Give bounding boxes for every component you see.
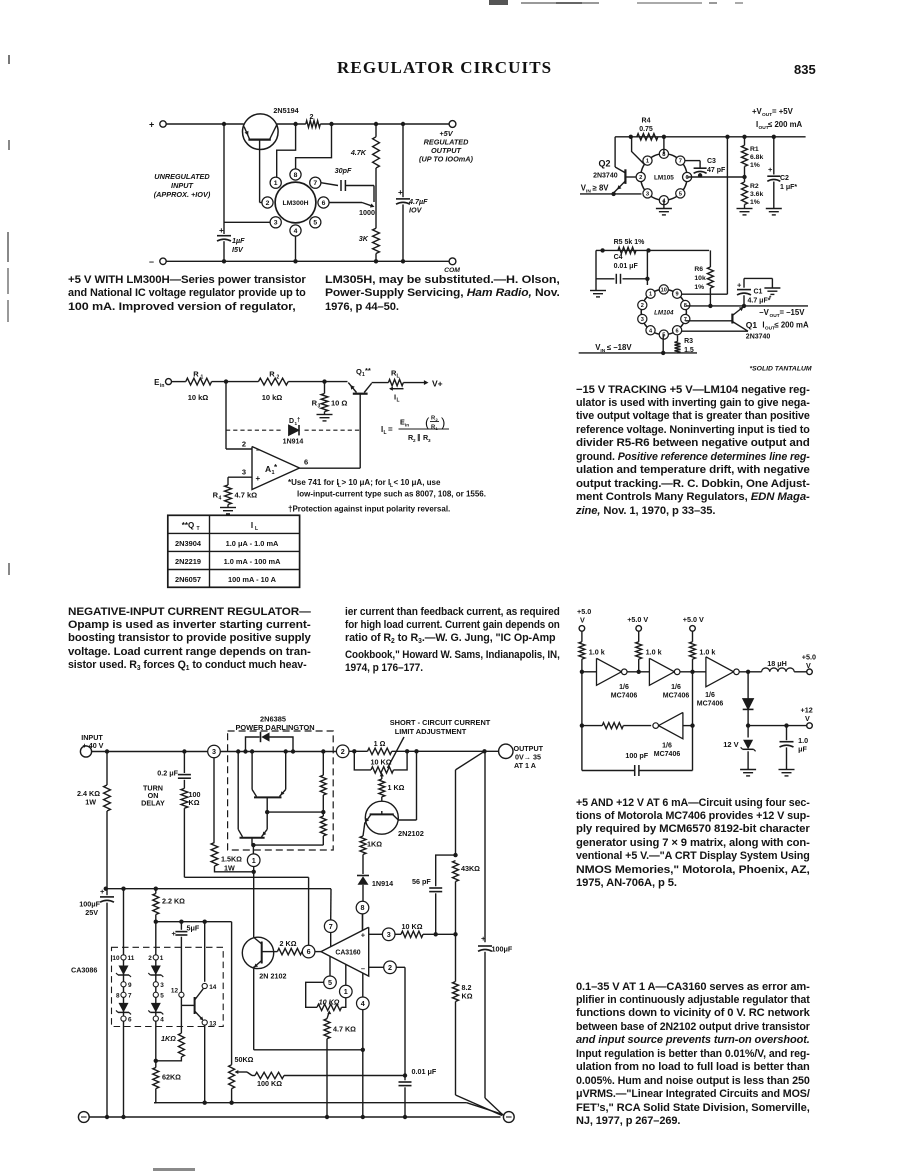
label unregulated input bbox=[154, 172, 211, 199]
svg-text:2N3904: 2N3904 bbox=[175, 539, 202, 548]
svg-text:12: 12 bbox=[171, 988, 179, 995]
svg-text:in: in bbox=[160, 383, 164, 389]
resistor 2 KOhm bbox=[277, 948, 302, 954]
svg-text:MC7406: MC7406 bbox=[611, 693, 638, 700]
svg-text:7: 7 bbox=[313, 180, 317, 187]
svg-text:(UP TO IOOmA): (UP TO IOOmA) bbox=[419, 155, 473, 164]
svg-text:*: * bbox=[274, 463, 278, 472]
wire rail node to pin 1 bbox=[277, 124, 296, 177]
svg-text:25V: 25V bbox=[85, 908, 98, 917]
svg-text:2 KΩ: 2 KΩ bbox=[280, 939, 297, 948]
label 100uF 25V bbox=[79, 900, 100, 918]
diode darlington top bbox=[246, 732, 294, 752]
label C3 47pF bbox=[707, 158, 726, 174]
svg-text:6: 6 bbox=[322, 200, 326, 207]
resistor 8.2 KOhm bbox=[453, 934, 503, 1115]
label 12 V bbox=[723, 740, 738, 749]
node 2 circle bbox=[336, 745, 349, 758]
wire pin2 stub bbox=[640, 176, 642, 178]
wire bottom rail bbox=[89, 1116, 500, 1118]
svg-text:10 KΩ: 10 KΩ bbox=[319, 998, 340, 1007]
label IL arrow bbox=[389, 387, 404, 404]
svg-text:0.75: 0.75 bbox=[639, 126, 653, 133]
label 1N914 bbox=[283, 439, 304, 446]
wire pin1b stub bbox=[345, 964, 347, 985]
resistor 1.5K 1W bbox=[211, 758, 256, 874]
fig5 +12V terminal bbox=[801, 706, 813, 729]
label 1/6 MC7406 d bbox=[654, 743, 681, 759]
svg-text:MC7406: MC7406 bbox=[697, 701, 724, 708]
wire darlington emitter node bbox=[253, 844, 323, 846]
label 18uH bbox=[767, 659, 787, 668]
svg-text:0.01 μF: 0.01 μF bbox=[614, 263, 639, 270]
wire pin 3 to input column bbox=[224, 221, 270, 223]
pin 14 bbox=[202, 983, 217, 990]
svg-text:CA3160: CA3160 bbox=[335, 950, 360, 957]
label R4 bbox=[213, 491, 222, 502]
label -Vout bbox=[759, 308, 805, 319]
svg-text:L: L bbox=[255, 526, 258, 532]
svg-text:1/6: 1/6 bbox=[662, 743, 672, 750]
scan artifacts left edge bbox=[8, 55, 10, 64]
pin 2 1 bbox=[148, 955, 164, 962]
svg-text:≥ 8V: ≥ 8V bbox=[593, 184, 610, 193]
dashed box darlington bbox=[228, 731, 334, 850]
label turn on delay bbox=[141, 784, 165, 808]
svg-text:62KΩ: 62KΩ bbox=[162, 1073, 181, 1082]
svg-text:10 KΩ: 10 KΩ bbox=[402, 922, 423, 931]
wire pin6 up bbox=[308, 877, 310, 945]
label 100 KOhm delay bbox=[189, 790, 201, 807]
svg-text:+: + bbox=[149, 120, 154, 130]
svg-text:7: 7 bbox=[679, 159, 682, 165]
svg-text:MC7406: MC7406 bbox=[663, 693, 690, 700]
potentiometer 10K loop bbox=[354, 751, 407, 773]
op-amp A1 bbox=[252, 446, 300, 490]
svg-text:9: 9 bbox=[676, 292, 679, 298]
resistor 1K emitter bbox=[360, 836, 366, 855]
resistor R6 10k bbox=[707, 250, 713, 308]
svg-text:10 KΩ: 10 KΩ bbox=[371, 758, 392, 767]
resistor 1.0k #2 bbox=[636, 631, 642, 672]
wire CA3086 col1 bbox=[121, 889, 125, 1120]
label 1 Ohm bbox=[374, 739, 386, 748]
svg-text:*: * bbox=[769, 296, 772, 302]
wire R5 top line bbox=[596, 248, 709, 252]
wire inv2 to inv3 bbox=[680, 670, 706, 674]
wire pointer to pot bbox=[388, 737, 405, 768]
resistor R3 1.5 bbox=[675, 342, 681, 353]
svg-text:DELAY: DELAY bbox=[141, 799, 165, 808]
capacitor C3 47pF bbox=[685, 161, 707, 178]
wire pin6 to collector bbox=[681, 330, 748, 332]
zener 12V bbox=[740, 726, 756, 776]
svg-text:C1: C1 bbox=[754, 289, 763, 296]
inverter U4c 1/6 MC7406 bbox=[706, 657, 739, 687]
pot loop 10K bbox=[306, 982, 324, 1007]
resistor 10 KOhm fig3b bbox=[395, 931, 456, 937]
resistor 1KOhm CA3086 bbox=[154, 1005, 185, 1063]
wire pin7 to base bbox=[685, 320, 732, 322]
svg-text:*Use 741 for I: *Use 741 for I bbox=[288, 478, 339, 487]
svg-text:1%: 1% bbox=[750, 162, 760, 169]
svg-text:C4: C4 bbox=[614, 254, 623, 261]
svg-text:OUT: OUT bbox=[762, 112, 772, 118]
ground below R4 bbox=[220, 508, 236, 514]
resistor 2.2 KOhm bbox=[153, 889, 159, 924]
svg-text:1N914: 1N914 bbox=[372, 879, 393, 888]
fig5 +5.0V terminal 3 bbox=[683, 615, 704, 631]
svg-text:R2: R2 bbox=[750, 183, 759, 190]
label COM bbox=[444, 267, 460, 274]
svg-text:LM104: LM104 bbox=[654, 309, 674, 316]
svg-text:in: in bbox=[405, 423, 409, 428]
svg-text:2: 2 bbox=[277, 375, 280, 381]
wire pin5 down bbox=[661, 335, 665, 355]
zener D CA3086 a bbox=[116, 966, 131, 978]
inductor 18uH bbox=[762, 668, 795, 672]
label +Vout bbox=[752, 107, 794, 118]
wire rail segment bbox=[277, 122, 306, 126]
svg-text:R4: R4 bbox=[642, 118, 651, 125]
fig5 +5.0V output terminal bbox=[802, 653, 816, 675]
svg-text:0.01 μF: 0.01 μF bbox=[412, 1067, 437, 1076]
resistor R1 10k bbox=[186, 378, 212, 385]
table row 2N6057 bbox=[175, 575, 277, 584]
svg-text:+: + bbox=[100, 887, 105, 896]
wire pin8 down join bbox=[362, 914, 364, 931]
IC U1 LM300H with pins 1-8 bbox=[262, 169, 329, 236]
svg-text:+: + bbox=[737, 281, 742, 290]
resistor R1 6.8k bbox=[742, 137, 748, 177]
fig3 minus terminal left bbox=[78, 1112, 89, 1123]
svg-text:INPUT: INPUT bbox=[171, 181, 193, 190]
label 2N5194 bbox=[273, 106, 298, 115]
svg-text:1: 1 bbox=[252, 856, 256, 865]
table row 2N3904 bbox=[175, 539, 279, 548]
svg-text:4: 4 bbox=[294, 228, 298, 235]
wire R1 to R2 bbox=[212, 379, 259, 383]
potentiometer 50K bbox=[229, 922, 235, 1105]
label R1 6.8k 1% bbox=[750, 146, 763, 169]
wire Vin line bbox=[580, 192, 642, 196]
svg-text:–: – bbox=[361, 964, 365, 973]
wire resistor node to pin 8 bbox=[296, 124, 332, 169]
svg-text:1%: 1% bbox=[750, 199, 760, 206]
svg-text:2N2102: 2N2102 bbox=[398, 829, 424, 838]
wire CA3086 col2 bbox=[155, 922, 157, 1061]
dashed box CA3086 bbox=[112, 947, 224, 1026]
pin 3 bbox=[153, 982, 164, 989]
label 1/6 MC7406 a bbox=[611, 684, 638, 700]
svg-text:1: 1 bbox=[201, 375, 204, 381]
caption 3 tracking regulator bbox=[576, 384, 810, 519]
svg-text:V: V bbox=[580, 616, 585, 625]
svg-text:+: + bbox=[768, 165, 773, 174]
svg-text:100μF: 100μF bbox=[492, 945, 513, 954]
wire +12 line bbox=[748, 723, 807, 727]
svg-text:9: 9 bbox=[128, 982, 132, 989]
label 1/6 MC7406 b bbox=[663, 684, 690, 700]
wire inv2out down bbox=[692, 672, 694, 771]
svg-text:D: D bbox=[289, 418, 294, 425]
capacitor 1.0uF out bbox=[779, 726, 795, 776]
label 4.7KOhm bbox=[333, 1025, 356, 1034]
table header bbox=[182, 521, 258, 532]
wire bias to pin14 bbox=[204, 922, 206, 982]
svg-text:≤ 200 mA: ≤ 200 mA bbox=[768, 120, 803, 129]
wire low rail upper bbox=[154, 1103, 503, 1115]
svg-text:= –15V: = –15V bbox=[780, 308, 806, 317]
svg-text:8: 8 bbox=[361, 903, 365, 912]
transistor Q upper darlington bbox=[252, 752, 286, 815]
svg-text:1.0 k: 1.0 k bbox=[646, 648, 662, 657]
label R1 bbox=[193, 370, 203, 381]
label 1000 bbox=[359, 208, 375, 217]
wire feed line to pin6 bbox=[184, 876, 308, 878]
label R4 0.75 bbox=[639, 118, 653, 134]
terminal +5V output bbox=[449, 121, 456, 128]
svg-text:10: 10 bbox=[661, 287, 667, 293]
label 0.01uF bbox=[412, 1067, 437, 1076]
capacitor 100uF output bbox=[478, 934, 504, 1116]
capacitor 30pF from pin 7 bbox=[321, 180, 374, 202]
label 1/6 MC7406 c bbox=[697, 692, 724, 708]
fig3 minus terminal right bbox=[503, 1112, 514, 1123]
zener D CA3086 b bbox=[116, 1003, 131, 1015]
svg-text:+: + bbox=[256, 474, 261, 483]
node 2b circle bbox=[384, 961, 397, 974]
label 100 KOhm bbox=[257, 1079, 282, 1088]
svg-text:1.0 μA - 1.0 mA: 1.0 μA - 1.0 mA bbox=[226, 539, 279, 548]
svg-text:10 kΩ: 10 kΩ bbox=[262, 393, 283, 402]
caption 2 left column bbox=[68, 606, 311, 676]
page number bbox=[794, 62, 816, 77]
svg-text:4.7 KΩ: 4.7 KΩ bbox=[333, 1025, 356, 1034]
dashed feedback wire bbox=[226, 429, 360, 431]
svg-text:2: 2 bbox=[641, 303, 644, 309]
svg-text:1KΩ: 1KΩ bbox=[367, 840, 382, 849]
svg-text:1/6: 1/6 bbox=[705, 692, 715, 699]
resistor R4 4.7k bbox=[225, 477, 232, 507]
caption 2 right column bbox=[345, 606, 560, 676]
svg-text:50KΩ: 50KΩ bbox=[235, 1055, 254, 1064]
label 1.0 uF bbox=[798, 736, 808, 754]
node 3 circle bbox=[208, 745, 221, 758]
svg-text:3: 3 bbox=[242, 468, 246, 477]
caption 1 right column bbox=[325, 274, 560, 314]
label C4 0.01uF bbox=[614, 254, 639, 270]
transistor 2N2102 inverter bbox=[242, 872, 277, 1050]
label 1 KOhm base bbox=[388, 783, 405, 792]
wire pin9 to +5V rail bbox=[682, 137, 728, 294]
pin 5 bbox=[153, 992, 164, 999]
svg-text:56 pF: 56 pF bbox=[412, 877, 431, 886]
svg-text:2N3740: 2N3740 bbox=[593, 173, 618, 180]
label 0.2uF bbox=[157, 769, 178, 778]
capacitor C4 0.01uF bbox=[596, 274, 647, 284]
capacitor 56pF bbox=[429, 855, 455, 936]
wire pin13 down bbox=[203, 1025, 207, 1105]
svg-text:+: + bbox=[172, 929, 177, 938]
svg-text:2N2219: 2N2219 bbox=[175, 557, 201, 566]
capacitor 0.2uF bbox=[178, 752, 191, 789]
wire collector to RL bbox=[372, 382, 389, 384]
svg-text:∥: ∥ bbox=[417, 433, 421, 442]
wire inv3 out bbox=[739, 670, 761, 674]
label 100uF output bbox=[492, 945, 513, 954]
svg-text:5: 5 bbox=[328, 978, 332, 987]
zener D CA3086 d bbox=[148, 1003, 163, 1015]
svg-text:1: 1 bbox=[160, 955, 164, 962]
wire pin2b bbox=[369, 967, 405, 1075]
label 10 KOhm fig3b bbox=[402, 922, 423, 931]
svg-text:+: + bbox=[219, 226, 224, 235]
svg-text:2: 2 bbox=[388, 963, 392, 972]
resistor 62KOhm bbox=[153, 1061, 159, 1103]
svg-text:V: V bbox=[806, 661, 811, 670]
svg-text:4: 4 bbox=[160, 1016, 164, 1023]
svg-text:2: 2 bbox=[266, 200, 270, 207]
svg-text:*SOLID TANTALUM: *SOLID TANTALUM bbox=[750, 365, 812, 372]
svg-text:**Q: **Q bbox=[182, 521, 194, 530]
svg-text:–: – bbox=[149, 257, 154, 267]
inverter U4b 1/6 MC7406 bbox=[649, 658, 680, 685]
resistor 100K delay bbox=[181, 788, 188, 877]
pin 9 bbox=[121, 982, 132, 989]
pin 12 bbox=[171, 988, 184, 998]
label R2 3.6k 1% bbox=[750, 183, 763, 206]
label 2N2102 inverter bbox=[259, 972, 286, 981]
svg-text:2: 2 bbox=[310, 112, 314, 121]
label 2 bbox=[310, 112, 314, 121]
wire R5 node to pin1 bbox=[645, 250, 649, 285]
wire pin4 down bbox=[361, 1010, 365, 1120]
svg-text:CA3086: CA3086 bbox=[71, 966, 97, 975]
diagonal rail to 43K bbox=[453, 751, 484, 857]
svg-text:V: V bbox=[805, 714, 810, 723]
svg-text:1N914: 1N914 bbox=[283, 439, 304, 446]
resistor 2.4K 1W bbox=[104, 752, 111, 889]
label 2N3740 Q1 bbox=[746, 334, 771, 341]
label 4.7 kOhm bbox=[235, 491, 258, 500]
svg-text:43KΩ: 43KΩ bbox=[461, 864, 480, 873]
pin 4 bbox=[153, 1016, 164, 1023]
note protection dagger bbox=[288, 505, 450, 514]
svg-text:< 10 μA, use: < 10 μA, use bbox=[394, 478, 441, 487]
wire pin 6 to pot wiper bbox=[329, 203, 374, 208]
label C2 1uF* bbox=[780, 175, 797, 191]
label 3K bbox=[359, 234, 369, 243]
svg-text:3.6k: 3.6k bbox=[750, 191, 763, 198]
label 10 kOhm R1 bbox=[188, 393, 209, 402]
diode D1 1N914 bbox=[289, 425, 299, 435]
pin 13 bbox=[202, 1020, 217, 1027]
wire input rail bbox=[172, 381, 186, 383]
svg-text:1.0 k: 1.0 k bbox=[589, 648, 605, 657]
label V+ bbox=[432, 379, 443, 389]
IC U3 LM104 with pins bbox=[638, 285, 690, 339]
fig4 wire +5V rail bbox=[615, 135, 806, 139]
label 2.2 KOhm bbox=[162, 897, 185, 906]
svg-text:=: = bbox=[388, 425, 393, 434]
label 8.2 KOhm bbox=[462, 983, 473, 1001]
pot wiper arrow bbox=[380, 773, 384, 780]
wire to +5 out bbox=[794, 671, 807, 673]
label Vin>=8V bbox=[581, 184, 609, 195]
wire rail down to Q2 collector bbox=[614, 137, 616, 167]
capacitor 5uF bbox=[172, 922, 188, 993]
svg-text:μF: μF bbox=[798, 745, 807, 754]
svg-text:1%: 1% bbox=[694, 284, 704, 291]
svg-text:1 KΩ: 1 KΩ bbox=[388, 783, 405, 792]
wire 100uF column bbox=[484, 751, 486, 942]
svg-text:10: 10 bbox=[112, 955, 120, 962]
wire pin6 down to R3 bbox=[677, 336, 679, 342]
svg-text:IOV: IOV bbox=[409, 206, 423, 215]
resistor 1 KOhm base bbox=[379, 779, 385, 797]
svg-text:R: R bbox=[193, 370, 199, 379]
svg-text:6: 6 bbox=[304, 458, 308, 467]
svg-text:R5 5k 1%: R5 5k 1% bbox=[614, 239, 646, 246]
label R5 5k 1% bbox=[614, 239, 646, 246]
svg-text:2N5194: 2N5194 bbox=[273, 106, 298, 115]
terminal COM bbox=[449, 258, 456, 265]
capacitor 100uF 25V bbox=[100, 887, 114, 1119]
pin 10 11 bbox=[112, 955, 134, 962]
svg-text:10 Ω: 10 Ω bbox=[331, 399, 347, 408]
svg-text:+V: +V bbox=[752, 107, 763, 116]
svg-text:L: L bbox=[397, 374, 400, 380]
label solid tantalum bbox=[750, 365, 812, 372]
label Iout 200mA bbox=[756, 120, 803, 131]
svg-text:LM105: LM105 bbox=[654, 174, 674, 181]
label 1N914 fig3 bbox=[372, 879, 393, 888]
svg-text:4.7K: 4.7K bbox=[350, 148, 367, 157]
resistor darlington upper right bbox=[320, 752, 326, 817]
wire left down to ground bbox=[595, 250, 597, 290]
wire pin 4 to bottom rail bbox=[293, 236, 297, 263]
svg-text:7: 7 bbox=[329, 922, 333, 931]
node 5 circle bbox=[324, 976, 337, 989]
svg-text:100 mA - 10 A: 100 mA - 10 A bbox=[228, 575, 277, 584]
svg-text:): ) bbox=[441, 415, 445, 430]
svg-text:5: 5 bbox=[313, 220, 317, 227]
resistor 1.0k #1 bbox=[579, 631, 585, 674]
capacitor 0.01uF bbox=[399, 1076, 412, 1120]
svg-text:A: A bbox=[265, 464, 271, 474]
caption 4 MC7406 supply bbox=[576, 797, 810, 891]
wire pin5 stub bbox=[329, 956, 331, 976]
svg-text:(: ( bbox=[425, 415, 430, 430]
svg-text:3K: 3K bbox=[359, 234, 369, 243]
svg-text:low-input-current type such as: low-input-current type such as 8007, 108… bbox=[297, 490, 486, 499]
svg-text:3: 3 bbox=[212, 747, 216, 756]
label R2 bbox=[269, 370, 279, 381]
label 10 KOhm fig3 bbox=[319, 998, 340, 1007]
inverter U4a 1/6 MC7406 bbox=[597, 658, 628, 685]
label 1uF 15V bbox=[232, 236, 245, 254]
svg-text:3: 3 bbox=[160, 982, 164, 989]
wire pin6 line right bbox=[687, 175, 747, 179]
node 6 circle bbox=[302, 945, 315, 958]
wire inverting node down bbox=[225, 382, 227, 449]
wire pin8 to opamp bbox=[362, 914, 364, 931]
svg-text:12 V: 12 V bbox=[723, 740, 738, 749]
label 50KOhm bbox=[235, 1055, 254, 1064]
svg-text:I: I bbox=[251, 521, 253, 530]
label R3 1.5 bbox=[684, 338, 694, 354]
